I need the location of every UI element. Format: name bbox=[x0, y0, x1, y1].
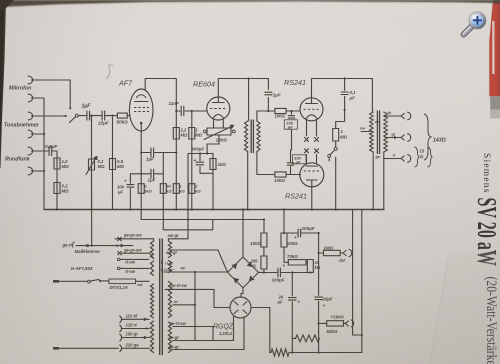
svg-text:143Ω: 143Ω bbox=[433, 138, 446, 144]
svg-text:ge-gr: ge-gr bbox=[168, 344, 180, 349]
svg-text:300μF: 300μF bbox=[191, 147, 204, 152]
svg-text:ge-rt: ge-rt bbox=[62, 242, 73, 247]
svg-text:Rundfunk: Rundfunk bbox=[5, 157, 31, 163]
svg-text:Mikrofon: Mikrofon bbox=[9, 86, 32, 92]
svg-text:220 ge: 220 ge bbox=[125, 343, 140, 348]
svg-text:sw-gr: sw-gr bbox=[166, 250, 178, 255]
svg-text:ge-gr-sw: ge-gr-sw bbox=[123, 233, 142, 238]
svg-text:MΩ: MΩ bbox=[181, 133, 188, 138]
svg-text:+: + bbox=[294, 236, 297, 241]
svg-text:pF: pF bbox=[295, 159, 301, 164]
svg-text:RE604: RE604 bbox=[193, 80, 215, 89]
svg-text:50kΩ: 50kΩ bbox=[117, 120, 129, 125]
svg-text:0,5μF: 0,5μF bbox=[45, 144, 59, 150]
svg-text:MΩ: MΩ bbox=[62, 189, 70, 194]
svg-text:+: + bbox=[323, 304, 326, 309]
svg-text:16μF: 16μF bbox=[323, 297, 334, 302]
svg-text:1μF: 1μF bbox=[148, 178, 156, 183]
svg-text:MΩ: MΩ bbox=[195, 133, 202, 138]
svg-text:gr: gr bbox=[391, 132, 396, 137]
svg-text:Tonabnehmer: Tonabnehmer bbox=[4, 123, 40, 129]
svg-text:1kΩ: 1kΩ bbox=[218, 162, 227, 167]
svg-text:MΩ: MΩ bbox=[117, 164, 125, 169]
svg-text:ws: ws bbox=[375, 119, 381, 124]
svg-text:ge-rt-sw: ge-rt-sw bbox=[169, 321, 187, 326]
svg-text:rt-gr~: rt-gr~ bbox=[164, 267, 175, 272]
svg-text:100Ω: 100Ω bbox=[275, 114, 286, 119]
svg-text:pF: pF bbox=[287, 124, 293, 129]
svg-text:kΩ: kΩ bbox=[315, 265, 321, 270]
svg-text:rt: rt bbox=[393, 153, 397, 158]
svg-text:100Ω: 100Ω bbox=[287, 241, 298, 246]
svg-text:+: + bbox=[194, 158, 197, 164]
svg-text:RS241: RS241 bbox=[285, 192, 307, 201]
svg-text:MΩ: MΩ bbox=[98, 164, 106, 169]
svg-text:-3V: -3V bbox=[338, 258, 346, 263]
svg-text:sw: sw bbox=[360, 126, 366, 131]
svg-text:1μF: 1μF bbox=[146, 157, 154, 162]
svg-text:Ω: Ω bbox=[252, 264, 257, 269]
svg-text:1MΩ: 1MΩ bbox=[324, 246, 334, 251]
svg-text:bl: bl bbox=[388, 110, 392, 115]
svg-text:AF7: AF7 bbox=[118, 79, 133, 88]
svg-text:Siemens: Siemens bbox=[481, 153, 491, 194]
svg-text:br: br bbox=[174, 299, 178, 304]
svg-text:H·AF7,504: H·AF7,504 bbox=[71, 266, 93, 271]
svg-text:MΩ: MΩ bbox=[340, 135, 348, 140]
svg-text:1μF: 1μF bbox=[82, 104, 92, 110]
svg-text:50kΩ: 50kΩ bbox=[327, 329, 338, 334]
svg-text:1: 1 bbox=[341, 129, 344, 134]
svg-text:(20-Watt-Verstärker: (20-Watt-Verstärker bbox=[483, 277, 499, 364]
svg-text:100Ω: 100Ω bbox=[250, 241, 261, 246]
svg-text:+: + bbox=[298, 301, 301, 306]
svg-text:ge-rt-sw: ge-rt-sw bbox=[170, 283, 188, 288]
svg-text:sw-gr: sw-gr bbox=[168, 233, 180, 238]
svg-text:4V: 4V bbox=[180, 265, 186, 270]
svg-text:ge: ge bbox=[375, 154, 381, 159]
svg-text:100μF: 100μF bbox=[272, 278, 285, 283]
svg-text:μF: μF bbox=[277, 300, 284, 305]
svg-text:0,1: 0,1 bbox=[350, 90, 357, 95]
svg-text:+: + bbox=[283, 264, 286, 269]
svg-text:kΩ: kΩ bbox=[195, 188, 201, 193]
svg-text:rt-sw: rt-sw bbox=[125, 260, 136, 265]
svg-text:Maßklemme: Maßklemme bbox=[75, 249, 101, 254]
svg-text:70kΩ: 70kΩ bbox=[287, 254, 298, 259]
svg-text:Ø7V/1,2A: Ø7V/1,2A bbox=[110, 285, 128, 290]
svg-text:ge-gr-sw: ge-gr-sw bbox=[123, 248, 142, 253]
svg-text:1,1/0,4: 1,1/0,4 bbox=[219, 331, 232, 336]
svg-text:5kΩ: 5kΩ bbox=[144, 188, 152, 193]
svg-text:1μF: 1μF bbox=[273, 93, 281, 98]
svg-text:+200V: +200V bbox=[331, 315, 345, 320]
svg-text:μF: μF bbox=[349, 96, 356, 101]
svg-text:MΩ: MΩ bbox=[62, 164, 70, 169]
svg-text:w4: w4 bbox=[137, 282, 143, 287]
svg-text:SV 20 aW: SV 20 aW bbox=[472, 198, 500, 267]
svg-text:ge-gr: ge-gr bbox=[168, 335, 180, 340]
svg-text:110 bl: 110 bl bbox=[126, 314, 138, 319]
svg-text:rt-sw: rt-sw bbox=[125, 269, 136, 274]
svg-text:Ω: Ω bbox=[420, 154, 424, 159]
svg-text:μF: μF bbox=[117, 190, 124, 195]
svg-text:RGQZ: RGQZ bbox=[213, 324, 234, 331]
svg-text:11nF: 11nF bbox=[169, 101, 180, 106]
svg-text:kΩ: kΩ bbox=[166, 188, 172, 193]
svg-text:rt-gr: rt-gr bbox=[165, 260, 174, 265]
svg-text:15: 15 bbox=[420, 149, 425, 154]
svg-text:125 rt: 125 rt bbox=[126, 323, 138, 328]
svg-text:100μF: 100μF bbox=[302, 226, 315, 231]
svg-text:+: + bbox=[124, 179, 127, 184]
svg-text:150 gr: 150 gr bbox=[126, 332, 139, 337]
svg-text:kΩ: kΩ bbox=[179, 188, 185, 193]
svg-text:100Ω: 100Ω bbox=[274, 178, 285, 183]
svg-text:22μF: 22μF bbox=[97, 121, 109, 126]
svg-text:200Ω: 200Ω bbox=[215, 138, 227, 143]
svg-text:RS241: RS241 bbox=[284, 78, 306, 87]
